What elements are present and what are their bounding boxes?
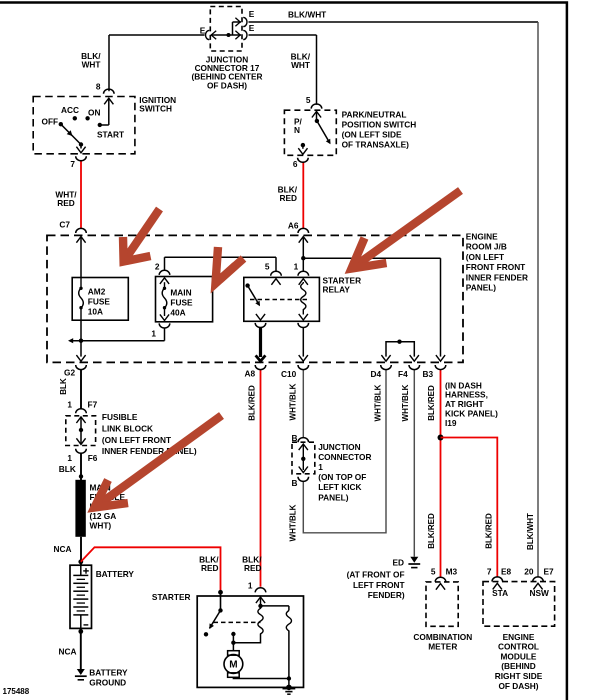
svg-text:(ON LEFT SIDE: (ON LEFT SIDE [342,130,402,140]
svg-text:BLK/RED: BLK/RED [248,385,257,421]
svg-text:BLK: BLK [59,464,76,474]
svg-text:ROOM J/B: ROOM J/B [466,242,507,252]
svg-text:1: 1 [67,453,72,463]
svg-text:(ON LEFT FRONT: (ON LEFT FRONT [102,435,171,445]
svg-text:M: M [229,660,237,671]
svg-text:B: B [292,478,298,488]
svg-text:E: E [200,26,206,36]
svg-text:WHT: WHT [291,60,310,70]
svg-text:40A: 40A [170,307,185,317]
svg-text:ACC: ACC [61,105,79,115]
svg-text:1: 1 [318,462,323,472]
svg-text:MAIN: MAIN [170,287,191,297]
svg-text:POSITION SWITCH: POSITION SWITCH [342,120,417,130]
svg-text:BLK/RED: BLK/RED [427,513,436,549]
svg-text:LEFT KICK: LEFT KICK [318,482,361,492]
svg-text:WHT/BLK: WHT/BLK [401,384,410,421]
svg-text:OF DASH): OF DASH) [498,681,538,691]
svg-text:E: E [249,23,255,33]
svg-text:PANEL): PANEL) [318,492,349,502]
svg-text:FUSIBLE: FUSIBLE [102,412,138,422]
svg-text:AM2: AM2 [88,286,106,296]
svg-text:INNER FENDER: INNER FENDER [466,272,528,282]
svg-text:PANEL): PANEL) [466,283,497,293]
svg-text:5: 5 [431,567,436,577]
svg-text:LINK BLOCK: LINK BLOCK [102,423,153,433]
svg-text:FUSE: FUSE [170,297,193,307]
svg-text:BATTERY: BATTERY [96,569,135,579]
svg-text:5: 5 [265,262,270,272]
svg-text:RELAY: RELAY [323,285,351,295]
svg-text:METER: METER [428,642,457,652]
svg-text:OFF: OFF [42,117,59,127]
svg-text:START: START [97,130,124,140]
svg-text:ENGINE: ENGINE [503,632,535,642]
svg-text:MODULE: MODULE [501,651,537,661]
svg-text:B: B [292,433,298,443]
svg-text:6: 6 [293,159,298,169]
svg-text:STARTER: STARTER [152,592,191,602]
svg-text:2: 2 [155,262,160,272]
svg-text:RED: RED [279,193,297,203]
svg-text:1: 1 [294,262,299,272]
svg-text:A8: A8 [245,369,256,379]
svg-text:F4: F4 [398,369,408,379]
svg-text:F7: F7 [88,399,98,409]
svg-text:F6: F6 [88,453,98,463]
svg-text:(AT FRONT OF: (AT FRONT OF [347,570,405,580]
svg-text:WHT/BLK: WHT/BLK [374,384,383,421]
svg-text:FRONT FRONT: FRONT FRONT [466,262,525,272]
svg-text:BLK/WHT: BLK/WHT [288,10,326,20]
svg-text:(12 GA: (12 GA [90,511,117,521]
svg-text:NCA: NCA [59,647,77,657]
svg-text:20: 20 [524,567,534,577]
svg-text:RED: RED [201,563,219,573]
svg-text:(ON TOP OF: (ON TOP OF [318,472,366,482]
svg-text:WHT): WHT) [90,521,112,531]
svg-text:ED: ED [392,557,404,567]
svg-text:8: 8 [96,81,101,91]
svg-text:PARK/NEUTRAL: PARK/NEUTRAL [342,110,407,120]
svg-text:M3: M3 [446,567,458,577]
svg-text:BLK/RED: BLK/RED [427,385,436,421]
svg-text:E7: E7 [544,567,555,577]
svg-text:E: E [249,9,255,19]
svg-text:JUNCTION: JUNCTION [318,442,360,452]
svg-text:N: N [294,125,300,135]
svg-text:RED: RED [244,563,262,573]
svg-text:ENGINE: ENGINE [466,232,498,242]
svg-text:RED: RED [57,198,75,208]
svg-text:7: 7 [70,159,75,169]
svg-text:OF DASH): OF DASH) [207,80,247,90]
svg-text:BATTERY: BATTERY [89,668,128,678]
svg-text:5: 5 [306,95,311,105]
svg-text:WHT/BLK: WHT/BLK [289,504,298,541]
svg-text:G2: G2 [64,368,75,378]
svg-text:C7: C7 [59,220,70,230]
svg-text:1: 1 [67,399,72,409]
svg-text:I19: I19 [445,418,457,428]
svg-text:BLK/WHT: BLK/WHT [526,513,535,550]
svg-text:FUSE: FUSE [88,296,111,306]
svg-text:E8: E8 [501,567,512,577]
svg-text:SWITCH: SWITCH [139,104,172,114]
svg-text:WHT: WHT [82,60,101,70]
svg-text:BLK/RED: BLK/RED [485,513,494,549]
svg-text:NSW: NSW [530,588,550,598]
svg-text:D4: D4 [371,369,382,379]
svg-text:1: 1 [151,329,156,339]
svg-text:CONTROL: CONTROL [498,642,539,652]
svg-text:175488: 175488 [3,687,30,696]
svg-text:C10: C10 [281,369,297,379]
svg-text:STA: STA [492,588,508,598]
svg-text:WHT/BLK: WHT/BLK [289,383,298,420]
svg-text:(ON LEFT: (ON LEFT [466,252,504,262]
svg-text:B3: B3 [423,369,434,379]
svg-text:CONNECTOR: CONNECTOR [318,452,371,462]
svg-text:BLK: BLK [59,378,68,395]
svg-text:10A: 10A [88,306,103,316]
svg-text:1: 1 [248,580,253,590]
svg-text:COMBINATION: COMBINATION [413,632,472,642]
svg-text:7: 7 [487,567,492,577]
svg-text:(BEHIND: (BEHIND [501,661,536,671]
svg-text:OF TRANSAXLE): OF TRANSAXLE) [342,140,410,150]
svg-text:RIGHT SIDE: RIGHT SIDE [495,671,543,681]
svg-text:ON: ON [88,108,100,118]
svg-text:A6: A6 [288,220,299,230]
svg-text:FENDER): FENDER) [368,590,405,600]
svg-text:NCA: NCA [54,544,72,554]
svg-text:LEFT FRONT: LEFT FRONT [353,580,405,590]
svg-text:GROUND: GROUND [89,677,126,687]
